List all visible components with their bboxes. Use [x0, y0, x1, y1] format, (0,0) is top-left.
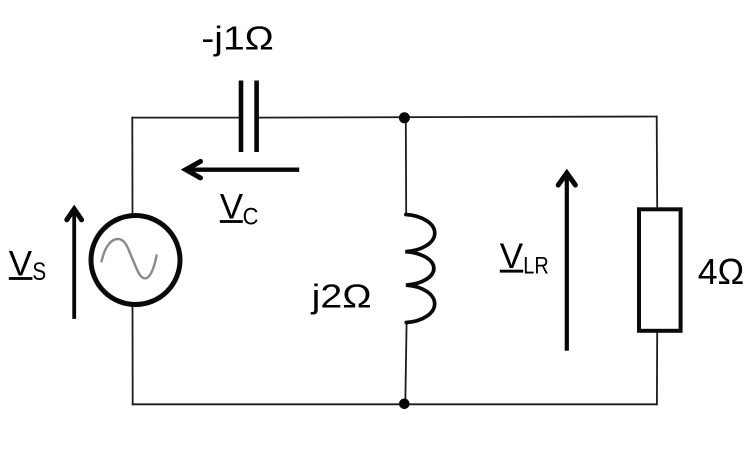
wire bottom horizontal: [132, 403, 658, 405]
wire inductor branch lower (coil down to node B): [405, 323, 406, 404]
wire left vertical lower (source to bottom corner): [132, 306, 134, 405]
svg-text:4Ω: 4Ω: [698, 251, 745, 292]
svg-text:-j1Ω: -j1Ω: [201, 20, 273, 57]
wire right vertical lower (resistor to bottom corner): [656, 332, 658, 405]
wire inductor branch upper (node A down to coil): [405, 118, 407, 215]
label V_C: [220, 188, 259, 231]
junction node A (top): [399, 112, 410, 123]
arrow V_S (up): [67, 209, 82, 319]
label V_LR: [500, 237, 549, 280]
resistor R1 4 ohm (rectangle): [639, 209, 681, 330]
inductor L1 j2 ohm (three arcs): [405, 215, 434, 323]
wire left vertical upper (top corner to source): [131, 117, 133, 215]
capacitor C1 -j1 ohm (two plates): [239, 81, 259, 153]
AC source V_S (circle): [91, 216, 180, 305]
wire top-left horizontal (source to capacitor): [131, 117, 239, 119]
svg-text:j2Ω: j2Ω: [310, 277, 371, 314]
svg-text:S: S: [32, 258, 46, 286]
junction node B (bottom): [399, 399, 410, 410]
arrow V_C (left): [186, 161, 299, 178]
wire top-right horizontal (capacitor to node A to top-right corner): [259, 117, 658, 118]
label V_S: [9, 244, 46, 286]
svg-text:C: C: [243, 204, 259, 231]
arrow V_LR (up): [558, 173, 575, 351]
wire right vertical upper (top corner to resistor): [656, 116, 659, 208]
svg-text:LR: LR: [523, 253, 549, 280]
AC source sine wave: [102, 239, 157, 278]
